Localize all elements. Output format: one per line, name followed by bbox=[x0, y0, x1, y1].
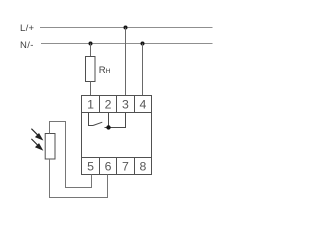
light arrow 2 bbox=[31, 139, 42, 150]
svg-text:7: 7 bbox=[122, 160, 129, 174]
svg-text:L/+: L/+ bbox=[20, 23, 35, 34]
wire pin 2 to contact junction bbox=[108, 113, 110, 128]
junction dot on L/+ feeding terminal 3 bbox=[124, 26, 128, 30]
svg-text:6: 6 bbox=[105, 160, 112, 174]
svg-text:RH: RH bbox=[99, 65, 111, 76]
junction dot of contact bbox=[106, 125, 110, 129]
wire resistor RH to terminal 1 bbox=[90, 82, 92, 97]
svg-text:2: 2 bbox=[105, 98, 112, 112]
wire photoresistor top to pin 5 bbox=[50, 122, 92, 188]
wire N/- to terminal 4 bbox=[142, 44, 144, 97]
resistor RH bbox=[86, 57, 96, 82]
wire photoresistor bottom to pin 6 bbox=[50, 159, 108, 198]
terminal separator 2|3 bbox=[116, 96, 118, 113]
svg-text:1: 1 bbox=[87, 98, 94, 112]
terminal separator 1|2 bbox=[99, 96, 101, 113]
svg-text:3: 3 bbox=[122, 98, 129, 112]
terminal separator 5|6 bbox=[99, 158, 101, 175]
terminal row bottom top edge bbox=[82, 157, 152, 159]
light arrow 1 bbox=[31, 129, 42, 140]
terminal separator 6|7 bbox=[116, 158, 118, 175]
svg-text:8: 8 bbox=[139, 160, 146, 174]
terminal separator 3|4 bbox=[134, 96, 136, 113]
wire L/+ rail bbox=[40, 27, 213, 29]
svg-text:5: 5 bbox=[87, 160, 94, 174]
svg-text:4: 4 bbox=[139, 98, 146, 112]
wire N/- to resistor RH bbox=[90, 44, 92, 58]
relay contact movable arm bbox=[93, 122, 102, 125]
relay contact fixed side to pin 3 bbox=[105, 113, 126, 128]
device outline U1 bbox=[82, 96, 152, 175]
photoresistor body bbox=[45, 134, 55, 160]
terminal row top bottom edge bbox=[82, 112, 152, 114]
svg-text:N/-: N/- bbox=[20, 40, 34, 51]
junction dot on N/- feeding terminal 4 bbox=[141, 42, 145, 46]
terminal separator 7|8 bbox=[134, 158, 136, 175]
relay contact wire from pin 1 bbox=[89, 113, 94, 126]
wire L/+ to terminal 3 bbox=[125, 28, 127, 97]
junction dot on N/- feeding RH bbox=[89, 42, 93, 46]
wire N/- rail bbox=[41, 43, 213, 45]
